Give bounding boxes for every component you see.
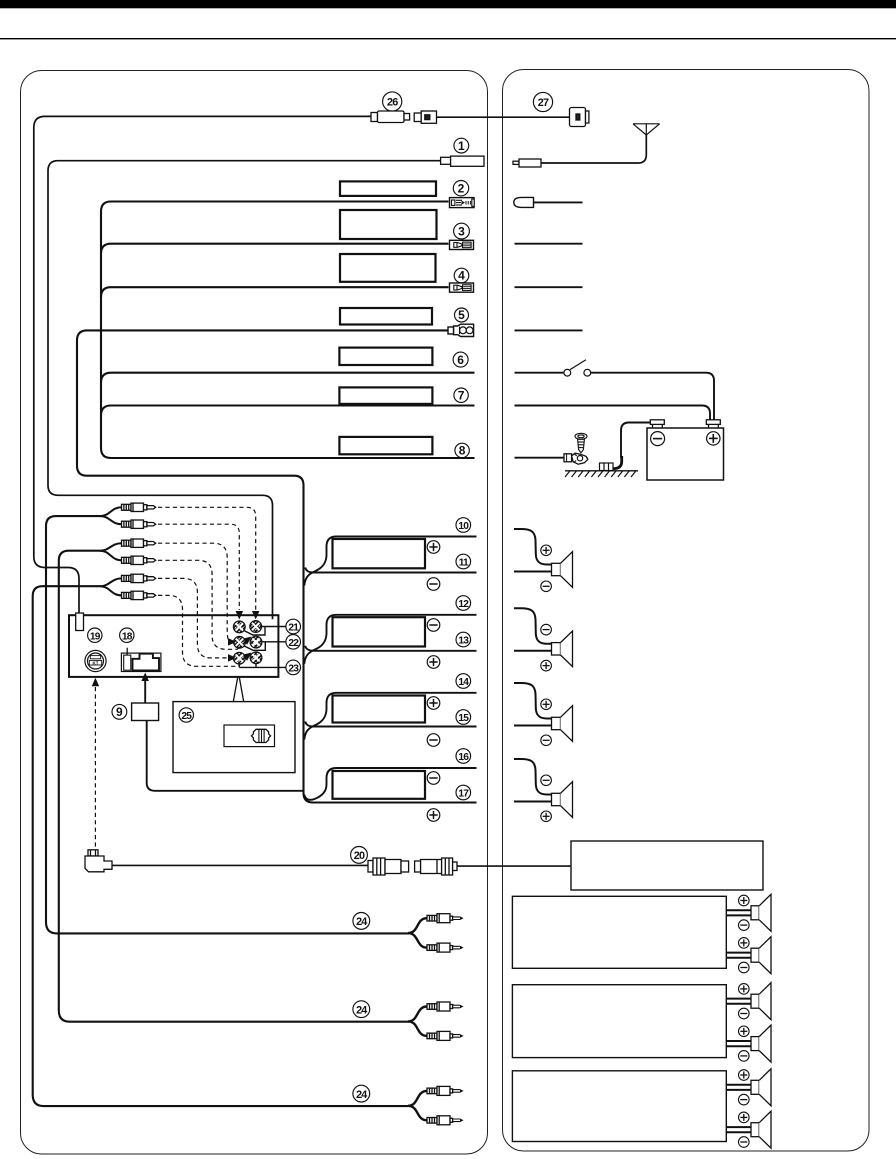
wire 20 to amplifier	[457, 865, 571, 867]
polarity sign	[427, 541, 440, 554]
label circle 14	[456, 674, 471, 689]
label box 3	[340, 210, 437, 239]
wire 1 (antenna lead)	[48, 161, 441, 620]
polarity sign	[427, 578, 440, 591]
polarity sign	[427, 772, 440, 785]
label circle 13	[456, 632, 471, 647]
RCA plug 24-1a	[427, 914, 464, 923]
amplifier box 1	[512, 896, 726, 968]
label circle 17	[456, 785, 471, 800]
svg-text:26: 26	[387, 97, 398, 109]
battery ground wire	[621, 423, 650, 459]
svg-text:24: 24	[356, 916, 367, 928]
arrowhead into jack C	[228, 638, 237, 646]
ring terminal 8	[564, 453, 588, 464]
wire 20	[112, 864, 368, 866]
polarity sign	[427, 697, 440, 710]
label circle 23	[286, 660, 301, 675]
svg-text:20: 20	[354, 850, 365, 862]
label circle 15	[456, 710, 471, 725]
amplifier box 20	[571, 841, 763, 890]
speaker label box 10/11	[333, 539, 426, 568]
amp speaker 1b	[726, 952, 751, 954]
speaker wire 16	[304, 768, 476, 800]
amp speaker 1a	[726, 909, 751, 911]
right-angle plug 20	[85, 850, 112, 872]
label circle 24-1	[353, 913, 370, 930]
cord 24-1 fork	[408, 918, 427, 947]
battery positive terminal	[706, 420, 720, 428]
connector 5 (bullet)	[448, 324, 474, 336]
svg-text:KT: KT	[93, 660, 99, 665]
wire 6 right part	[449, 372, 475, 374]
polarity sign	[427, 734, 440, 747]
svg-text:12: 12	[458, 599, 469, 610]
label circle 11	[456, 554, 471, 569]
label circle 27	[533, 92, 552, 111]
arrowhead into jack A	[236, 611, 244, 620]
amplifier box 3	[512, 1071, 726, 1142]
BUS connector female	[368, 858, 409, 875]
RCA cord pair 1 wire	[46, 516, 409, 933]
antenna mast wire	[541, 135, 646, 163]
wire 26-27	[437, 116, 570, 118]
battery minus sign	[651, 432, 665, 446]
cord 24-3 fork	[408, 1091, 427, 1120]
label box 8	[339, 437, 432, 454]
svg-text:18: 18	[122, 631, 133, 642]
svg-text:15: 15	[458, 713, 469, 724]
dashed route plug2 to jack A	[158, 524, 239, 610]
arrowhead into jack E	[228, 654, 237, 662]
svg-text:1: 1	[458, 139, 465, 153]
wire 3 (right)	[515, 243, 583, 245]
polarity sign	[427, 619, 440, 632]
wire elbow y=405.5	[101, 406, 449, 416]
harness tab	[76, 613, 84, 631]
svg-text:27: 27	[538, 97, 549, 109]
wire jacks A/B to label 21	[243, 627, 286, 636]
wire elbow y=243.7	[101, 244, 449, 254]
RCA plug 6	[122, 591, 156, 599]
RCA cord pair 3 wire	[33, 586, 409, 1106]
wire 26 (bus to head unit)	[34, 116, 371, 613]
output jack F	[250, 652, 262, 664]
connector box 9	[132, 703, 159, 721]
svg-text:14: 14	[458, 677, 469, 688]
label box 2	[340, 181, 436, 196]
RCA plug 4	[122, 556, 156, 564]
svg-text:17: 17	[458, 789, 469, 800]
svg-text:3: 3	[458, 224, 465, 238]
svg-text:11: 11	[459, 558, 469, 569]
label circle 19	[88, 628, 102, 642]
arrowhead into jack D	[243, 637, 252, 645]
label circle 8	[455, 443, 469, 457]
svg-text:13: 13	[458, 636, 469, 647]
label circle 21	[286, 619, 301, 634]
label circle 12	[456, 596, 471, 611]
cord 24-2 fork	[408, 1007, 427, 1036]
label circle 1	[454, 138, 469, 153]
top header bar	[0, 0, 896, 8]
connector 2 (aerial adapter)	[450, 198, 475, 208]
RCA plug 1	[122, 503, 156, 511]
wire 7 (right)	[515, 406, 711, 420]
dashed route plug5 to jack E	[158, 578, 228, 658]
speaker (right) 1	[514, 529, 551, 565]
wire elbow y=372.7	[101, 373, 449, 383]
RCA plug 24-1b	[427, 943, 464, 952]
RCA plug 2	[122, 520, 156, 528]
svg-text:23: 23	[288, 664, 299, 675]
RCA cord pair 2 wire	[59, 551, 409, 1022]
wire 6 (right) + ignition switch	[515, 372, 564, 374]
output jack C	[234, 636, 246, 648]
head unit rear panel	[69, 615, 278, 677]
speaker (right) 4	[514, 759, 551, 795]
wire 4 (right)	[515, 286, 583, 288]
output jack D	[250, 636, 262, 648]
svg-text:25: 25	[181, 711, 192, 722]
RCA plug 24-3a	[427, 1086, 464, 1095]
svg-text:24: 24	[356, 1004, 367, 1016]
chassis ground	[565, 471, 638, 477]
speaker wire 12	[304, 615, 476, 664]
RCA plug 24-2b	[427, 1031, 464, 1040]
wire 2 (right)	[534, 201, 583, 203]
label circle 24-3	[353, 1085, 370, 1102]
label box 7	[339, 387, 432, 404]
dashed route plug4 to jack D	[158, 560, 246, 649]
arrowhead to connector 18	[141, 673, 149, 682]
RCA plug 3	[122, 539, 156, 547]
label box 5	[340, 308, 432, 325]
header rule	[0, 38, 896, 39]
battery plus sign	[707, 432, 720, 445]
svg-text:5: 5	[458, 308, 465, 322]
connector 4 (spade terminal)	[450, 283, 474, 292]
label circle 26	[383, 92, 402, 111]
dashed link 19 to plug 20	[94, 687, 96, 849]
fuse block on ground	[600, 463, 614, 471]
polarity sign	[427, 656, 440, 669]
speaker (right) 2	[514, 608, 551, 644]
arrowhead into jack F	[243, 653, 252, 661]
connector 3 (spade terminal)	[450, 240, 474, 249]
antenna symbol	[633, 124, 660, 135]
label circle 22	[286, 635, 301, 650]
svg-text:10: 10	[458, 521, 469, 532]
arrowhead into jack B	[252, 611, 260, 620]
RCA plug 24-3b	[427, 1116, 464, 1125]
wire 5 + trunk feed	[77, 330, 477, 802]
connector 27	[570, 108, 589, 127]
speaker wire 11	[305, 568, 476, 573]
antenna socket 1	[441, 156, 484, 166]
RCA plug 24-2a	[427, 1002, 464, 1011]
speaker wire 14	[304, 693, 476, 740]
wire 5 (right)	[515, 329, 583, 331]
output jack E	[233, 652, 245, 664]
antenna plug 26	[371, 111, 410, 123]
callout wedge 25	[233, 678, 244, 703]
label circle 2	[453, 181, 468, 196]
svg-text:24: 24	[356, 1089, 367, 1101]
label circle 7	[454, 388, 468, 402]
svg-text:9: 9	[116, 705, 123, 719]
label box 4	[340, 254, 436, 282]
svg-text:6: 6	[457, 353, 464, 367]
battery	[647, 428, 724, 480]
output jack B	[250, 621, 262, 633]
dashed route plug6 to jack F	[158, 595, 246, 666]
wire jacks C/D to label 22	[243, 642, 286, 651]
label box 6	[339, 348, 432, 365]
speaker wire 13	[305, 646, 476, 651]
car antenna plug (right)	[513, 159, 541, 167]
label circle 6	[453, 352, 468, 367]
label circle 10	[456, 518, 471, 533]
box 25	[173, 702, 295, 773]
harness bus vertical	[101, 212, 475, 459]
antenna socket 26	[414, 111, 436, 123]
svg-text:2: 2	[458, 181, 465, 195]
left panel frame	[21, 71, 488, 1155]
amp speaker 2a	[726, 998, 751, 1000]
speaker wire 10	[304, 537, 476, 586]
label circle 25	[179, 708, 193, 722]
polarity sign	[427, 809, 440, 822]
DIN connector 19	[85, 650, 106, 671]
amp speaker 2b	[726, 1040, 751, 1042]
amp speaker 3b	[726, 1126, 751, 1128]
wire elbow y=201.5	[101, 202, 449, 212]
svg-text:8: 8	[459, 444, 466, 458]
arrowhead to DIN 19	[92, 678, 100, 687]
RCA plug 5	[122, 574, 156, 582]
wire jacks E/F to label 23	[239, 661, 285, 668]
label circle 16	[456, 749, 471, 764]
battery icon 25	[224, 725, 275, 747]
cap connector 2 (right)	[514, 197, 534, 207]
svg-text:7: 7	[458, 388, 465, 402]
wire 9	[147, 721, 304, 791]
label circle 18	[120, 628, 134, 642]
wire 8 (right)	[515, 457, 566, 459]
output jack A	[233, 621, 245, 633]
battery negative terminal	[650, 420, 664, 428]
amp speaker 3a	[726, 1084, 751, 1086]
wire elbow y=287.2	[101, 287, 449, 297]
dashed route plug1 to jack B	[158, 507, 256, 610]
svg-text:16: 16	[458, 752, 469, 763]
speaker label box 16/17	[333, 771, 426, 799]
arrow 9 to 18	[144, 681, 146, 703]
label circle 4	[454, 268, 469, 283]
label circle 20	[351, 847, 368, 864]
svg-text:19: 19	[90, 631, 101, 642]
speaker (right) 3	[514, 683, 551, 719]
label circle 5	[455, 308, 469, 322]
mounting screw	[575, 433, 587, 453]
amplifier box 2	[512, 985, 726, 1058]
right panel frame	[503, 70, 870, 1152]
BUS connector male	[415, 858, 457, 875]
label circle 9	[112, 704, 127, 719]
svg-text:4: 4	[458, 269, 465, 283]
svg-text:22: 22	[288, 638, 299, 649]
svg-text:21: 21	[288, 623, 299, 634]
wire 7 right part	[449, 404, 475, 406]
power connector 18	[121, 648, 160, 672]
speaker label box 12/13	[333, 617, 426, 646]
speaker label box 14/15	[333, 696, 426, 723]
label circle 24-2	[353, 1001, 370, 1018]
label circle 3	[454, 223, 470, 239]
speaker wire 15	[305, 722, 476, 727]
dashed route plug3 to jack C	[158, 543, 230, 642]
